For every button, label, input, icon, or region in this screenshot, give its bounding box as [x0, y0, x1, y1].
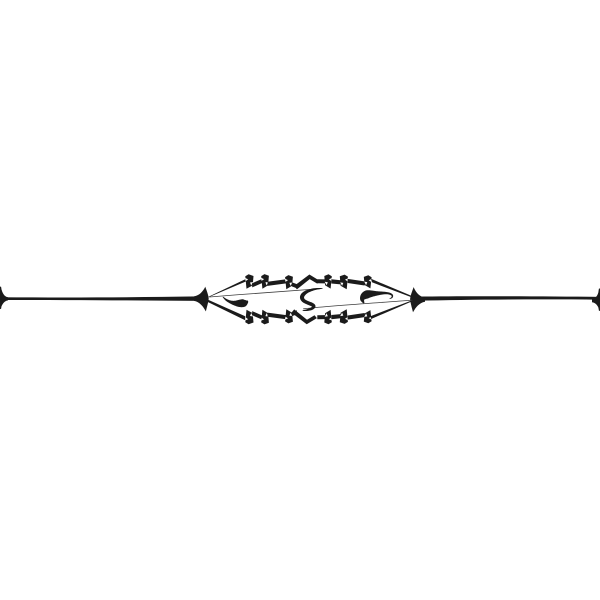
- zigzag bolt bar T5: [340, 275, 348, 290]
- right comma leaf: [360, 290, 393, 303]
- white notch lower-left of bar T6: [364, 282, 367, 286]
- right terminal bell flare: [592, 291, 599, 309]
- zigzag bolt bar B3: [285, 309, 293, 323]
- white notch lower-left of bar B5: [340, 313, 343, 317]
- zigzag arm B2-B3: [268, 313, 287, 320]
- right terminal vertical bar: [598, 288, 600, 311]
- white notch upper-right of bar B6: [369, 317, 372, 320]
- left horizontal rule (tapered): [0, 296, 199, 301]
- white notch upper-right of bar T6: [369, 279, 372, 282]
- white notch upper-left of bar T1: [245, 278, 248, 281]
- zigzag arm T1-T2: [252, 279, 262, 288]
- hairline from S bottom to right vertex: [304, 300, 413, 309]
- white notch lower-right of bar T1: [250, 282, 253, 286]
- hairline from left vertex to S top: [210, 289, 322, 297]
- zigzag bolt bar T2: [261, 274, 269, 289]
- zigzag arm B4-B5: [331, 314, 340, 319]
- white notch lower-right of bar T2: [265, 282, 268, 286]
- white notch upper-right of bar T5: [345, 278, 348, 281]
- right vertex spike: [410, 287, 425, 312]
- zigzag arm B5-B6: [348, 313, 365, 320]
- white notch upper-left of bar T2: [261, 278, 264, 281]
- left terminal bell flare: [1, 289, 8, 306]
- zigzag bolt bar B2: [261, 310, 269, 325]
- zigzag arm T2-T3: [268, 279, 287, 286]
- white notch lower-left of bar B6: [364, 313, 367, 317]
- white notch upper-right of bar B5: [345, 317, 348, 320]
- white notch upper-left of bar B1: [245, 317, 248, 320]
- bottom-right thin steep edge: [370, 300, 412, 319]
- bottom-left thick steep edge: [208, 300, 245, 321]
- top-right thick steep edge: [371, 279, 413, 298]
- white notch lower-left of bar T5: [340, 282, 343, 286]
- white notch lower-left of bar T4: [325, 282, 328, 286]
- top-left thin steep edge: [209, 279, 246, 297]
- white notch upper-left of bar B2: [261, 318, 264, 321]
- white notch lower-right of bar B2: [265, 313, 268, 317]
- left terminal vertical bar: [0, 287, 2, 310]
- top apex chevron: [294, 275, 319, 290]
- left comma leaf: [223, 297, 249, 308]
- bottom border zigzag chain (vertically mirrored copy): [245, 309, 372, 324]
- zigzag bolt bar B1: [245, 310, 253, 325]
- zigzag arm apex-T4: [317, 279, 325, 283]
- zigzag arm T3-apex: [292, 282, 297, 288]
- white notch upper-right of bar T4: [329, 278, 332, 281]
- white notch lower-right of bar B1: [250, 313, 253, 317]
- white notch upper-left of bar T3: [285, 279, 288, 282]
- zigzag bolt bar T4: [324, 274, 332, 288]
- left vertex spike: [194, 287, 209, 312]
- zigzag bolt bar B5: [340, 309, 348, 324]
- white notch lower-right of bar B3: [289, 313, 292, 317]
- zigzag bolt bar T1: [245, 274, 253, 289]
- white notch upper-left of bar B3: [285, 317, 288, 320]
- zigzag arm T4-T5: [331, 279, 340, 284]
- zigzag bolt bar B6: [364, 310, 372, 323]
- right horizontal rule (tapered): [417, 296, 600, 301]
- white notch lower-left of bar B4: [325, 313, 328, 317]
- bottom apex chevron: [292, 309, 317, 324]
- zigzag bolt bar B4: [324, 310, 332, 324]
- center S swash: [300, 288, 323, 311]
- zigzag bolt bar T3: [285, 275, 293, 289]
- white notch upper-right of bar B4: [329, 317, 332, 320]
- zigzag arm B1-B2: [252, 311, 262, 320]
- zigzag arm apex-B4: [317, 315, 325, 319]
- zigzag arm T5-T6: [348, 279, 365, 286]
- white notch lower-right of bar T3: [289, 282, 292, 286]
- zigzag bolt bar T6: [364, 275, 372, 288]
- zigzag arm B3-apex: [292, 310, 297, 316]
